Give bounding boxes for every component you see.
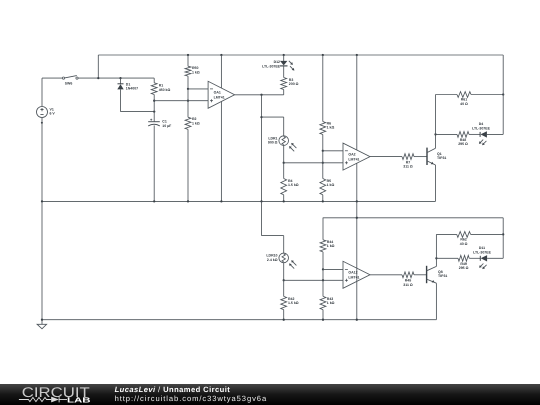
wire D11 to right rail xyxy=(487,257,503,259)
wire R1 node to OA1 plus input xyxy=(154,100,208,102)
wire riser to top rail xyxy=(97,55,99,78)
wire R50 bottom lead xyxy=(187,76,189,89)
wire to OA12 minus input xyxy=(323,268,343,270)
wire LDR10 feed xyxy=(261,201,263,235)
resistor R7 zigzag xyxy=(402,154,414,160)
wire R4 bottom lead xyxy=(283,195,285,202)
label R6 1k xyxy=(327,122,335,130)
resistor R3 zigzag xyxy=(281,78,287,90)
svg-text:40 Ω: 40 Ω xyxy=(460,242,468,246)
wire R6 top lead xyxy=(322,55,324,122)
wire R42 top lead xyxy=(283,280,285,296)
wire OA2 negative supply / OA12 positive supply xyxy=(356,163,358,268)
wire R44 top lead xyxy=(322,218,324,240)
wire to LDR1 top xyxy=(262,116,284,118)
wire R50 top lead xyxy=(187,55,189,66)
svg-text:1 kΩ: 1 kΩ xyxy=(192,121,200,125)
wire R43 bottom lead xyxy=(322,310,324,320)
LED D11 light arrow 1 xyxy=(479,264,483,268)
svg-text:LTL-307EE: LTL-307EE xyxy=(473,250,491,254)
node railA-V1 xyxy=(41,200,43,202)
wire LDR10 bottom lead xyxy=(283,263,285,281)
LDR1 light arrow 1 xyxy=(289,146,294,151)
wire OA1 positive supply xyxy=(220,55,222,88)
resistor R44 zigzag xyxy=(320,240,326,252)
wire OA1 output xyxy=(235,94,284,96)
resistor R6 zigzag xyxy=(320,122,326,135)
label Q8 TIP31 xyxy=(438,270,447,278)
resistor R43 zigzag xyxy=(320,296,326,309)
transistor Q1 TIP31 xyxy=(427,148,436,165)
label D4 LTL-307EE xyxy=(472,122,490,130)
wire Q1 collector up xyxy=(435,134,437,148)
label R61 40 xyxy=(460,98,468,106)
svg-text:LMT41: LMT41 xyxy=(348,158,359,162)
node R1 bottom junction xyxy=(153,100,155,102)
wire R5 bottom lead xyxy=(322,195,324,202)
label OA12 LMT41 xyxy=(348,271,359,280)
svg-text:TIP31: TIP31 xyxy=(438,274,447,278)
resistor R62 zigzag xyxy=(457,232,471,238)
node R62 right on rail xyxy=(502,233,504,235)
svg-text:2.4 kΩ: 2.4 kΩ xyxy=(267,258,278,262)
wire OA1 negative supply xyxy=(220,102,222,202)
ground symbol xyxy=(37,320,47,329)
wire R48 left lead xyxy=(436,133,458,135)
LED D4 light arrow 1 xyxy=(479,140,483,144)
resistor R5 zigzag xyxy=(320,179,326,195)
label OA1 LMT41 xyxy=(214,91,225,100)
node OA1 output junction xyxy=(260,94,262,96)
label LDR1 900 xyxy=(268,136,278,144)
wire R45 to Q8 base xyxy=(414,274,427,276)
wire R62 left riser xyxy=(435,234,437,258)
node SW rail junction xyxy=(97,77,99,79)
svg-text:OA1: OA1 xyxy=(214,91,221,95)
wire to OA2 plus input xyxy=(284,162,343,164)
wire R2 top lead xyxy=(187,101,189,118)
label R7 311 xyxy=(403,161,413,169)
svg-text:1N4007: 1N4007 xyxy=(126,87,138,91)
label R2 1k xyxy=(192,117,200,125)
label R62 40 xyxy=(460,238,468,246)
label R4 1.5k xyxy=(288,179,299,187)
node R61 right on rail xyxy=(502,93,504,95)
wire V1 to SW6 xyxy=(42,77,62,79)
node Q8 collector junction xyxy=(435,257,437,259)
svg-text:1 kΩ: 1 kΩ xyxy=(327,126,335,130)
wire R42 bottom lead xyxy=(283,310,285,320)
node railA-C1 xyxy=(153,200,155,202)
svg-text:OA2: OA2 xyxy=(348,152,355,156)
CircuitLab logo wordmark xyxy=(22,384,91,405)
node D12 top on rail xyxy=(283,54,285,56)
wire to OA1 minus input xyxy=(188,88,208,90)
wire R1 top lead xyxy=(153,78,155,83)
wire R62 left lead xyxy=(436,233,456,235)
node R43 top junction xyxy=(322,279,324,281)
wire C1 bottom to rail A xyxy=(153,125,155,201)
LED D4 light arrow 2 xyxy=(482,141,486,145)
label R5 1k xyxy=(327,179,335,187)
wire OA2 positive supply xyxy=(356,55,358,150)
node railB-OA2supply xyxy=(356,217,358,219)
LED D11 light arrow 2 xyxy=(482,265,486,269)
capacitor C1 xyxy=(148,119,160,126)
wire R61 left lead xyxy=(436,94,458,96)
label R50 1k xyxy=(192,66,200,74)
wire V1 top lead up xyxy=(41,78,43,106)
svg-text:LTL-307EE: LTL-307EE xyxy=(262,64,280,68)
label D1 1N4007 xyxy=(126,83,138,91)
label R43 1k xyxy=(327,297,335,305)
wire D4 to right rail xyxy=(487,133,503,135)
node bottom-V1 xyxy=(41,319,43,321)
wire R5 top lead xyxy=(322,163,324,179)
LED D11 xyxy=(480,255,487,261)
wire R3 bottom lead xyxy=(283,90,285,95)
resistor R49 zigzag xyxy=(458,255,469,261)
photoresistor LDR10 xyxy=(279,253,289,263)
node railA-out1 xyxy=(260,200,262,202)
wire rail A (mid ground rail) xyxy=(42,200,436,202)
transistor Q8 TIP31 xyxy=(427,266,437,283)
label R42 1.5k xyxy=(288,297,299,305)
LED D4 xyxy=(480,131,487,137)
label R49 295 xyxy=(459,262,469,270)
svg-text:295 Ω: 295 Ω xyxy=(458,142,468,146)
svg-text:1.5 kΩ: 1.5 kΩ xyxy=(288,183,299,187)
resistor R1 zigzag xyxy=(151,83,157,95)
wire R6-R5 column xyxy=(322,151,324,163)
node R2 top junction xyxy=(187,100,189,102)
node LDR1 feed junction xyxy=(260,116,262,118)
op-amp OA12 xyxy=(343,261,370,288)
node bottom-OA12 xyxy=(356,319,358,321)
resistor R2 zigzag xyxy=(185,117,191,129)
resistor R48 zigzag xyxy=(457,132,469,138)
wire to OA12 plus input xyxy=(284,279,343,281)
CircuitLab logo resistor-diode glyph xyxy=(19,397,67,403)
wire Q8 emitter down xyxy=(435,283,437,320)
node railA-R2 xyxy=(187,200,189,202)
switch SW6 xyxy=(62,76,78,80)
node V1 negative terminal xyxy=(41,122,43,124)
wire LDR1 bottom lead xyxy=(283,145,285,162)
resistor R61 zigzag xyxy=(457,92,471,98)
label LDR10 2.4k xyxy=(266,254,277,262)
label R45 311 xyxy=(403,279,413,287)
wire V1 bottom to ground rail xyxy=(41,118,43,320)
svg-text:6 V: 6 V xyxy=(50,112,56,116)
wire D1 to C1 node xyxy=(121,111,155,113)
svg-text:OA12: OA12 xyxy=(348,271,357,275)
op-amp OA1 xyxy=(208,81,235,108)
node OA2 power top xyxy=(356,54,358,56)
LDR10 light arrow 2 xyxy=(291,260,296,265)
photoresistor LDR1 xyxy=(279,136,289,146)
wire R61 right lead xyxy=(471,94,503,96)
wire R4 top lead xyxy=(283,163,285,179)
wire R1 bottom / C1 top lead xyxy=(153,95,155,122)
svg-text:SW6: SW6 xyxy=(65,81,73,85)
label Q1 TIP31 xyxy=(437,152,446,160)
node D1-C1 junction xyxy=(153,110,155,112)
svg-text:LTL-307EE: LTL-307EE xyxy=(472,126,490,130)
wire R44 bottom lead xyxy=(322,252,324,270)
svg-text:TIP31: TIP31 xyxy=(437,156,446,160)
svg-text:1.5 kΩ: 1.5 kΩ xyxy=(288,301,299,305)
svg-text:LAB: LAB xyxy=(67,396,91,405)
wire top supply rail xyxy=(98,54,503,56)
svg-text:LMT41: LMT41 xyxy=(214,96,225,100)
node bottom-R42 xyxy=(283,319,285,321)
svg-text:311 Ω: 311 Ω xyxy=(403,283,413,287)
svg-text:1 kΩ: 1 kΩ xyxy=(327,183,335,187)
label C1 10uF xyxy=(162,120,172,128)
wire R44-R43 column xyxy=(322,269,324,280)
wire to OA2 minus input xyxy=(323,150,343,152)
resistor R42 zigzag xyxy=(281,296,287,309)
wire R2 bottom lead xyxy=(187,129,189,201)
wire OA12 negative supply (passes through symbol) xyxy=(356,268,358,320)
resistor R4 zigzag xyxy=(281,179,287,195)
wire Q1 emitter down xyxy=(435,165,437,201)
wire SW6 to R1 top xyxy=(78,77,154,79)
wire R7 to Q1 base xyxy=(414,156,427,158)
wire R49 to D11 xyxy=(469,257,480,259)
svg-text:1 kΩ: 1 kΩ xyxy=(192,70,200,74)
svg-text:10 µF: 10 µF xyxy=(162,124,172,128)
node R50 top on rail xyxy=(187,54,189,56)
node D1 top junction xyxy=(119,77,121,79)
label D12 LTL-307EE xyxy=(262,60,280,68)
wire R43 top lead xyxy=(322,280,324,296)
wire D12 top lead xyxy=(283,55,285,61)
node railA-R4 xyxy=(283,200,285,202)
wire D1 bottom lead xyxy=(120,89,122,111)
svg-text:900 Ω: 900 Ω xyxy=(268,141,278,145)
wire R6 bottom lead xyxy=(322,135,324,151)
label OA2 LMT41 xyxy=(348,152,359,161)
wire D1 top lead xyxy=(120,78,122,84)
node R6/minus junction xyxy=(322,150,324,152)
wire R48 to D4 xyxy=(469,133,480,135)
label R1 450k xyxy=(159,84,171,92)
wire OA2 output to R7 xyxy=(370,156,402,158)
LED D12 light arrow 1 xyxy=(289,61,293,65)
wire OA1 output riser xyxy=(261,95,263,202)
label R3 200 xyxy=(289,78,299,86)
node railA-R5 xyxy=(322,200,324,202)
svg-text:1 kΩ: 1 kΩ xyxy=(327,244,335,248)
wire right rail bottom section xyxy=(502,218,504,258)
node OA1 power top xyxy=(220,54,222,56)
node Q1 collector junction xyxy=(434,133,436,135)
LDR10 light arrow 1 xyxy=(289,263,294,268)
node LDR1/R4 junction xyxy=(283,162,285,164)
label R44 1k xyxy=(327,240,335,248)
node R5 top junction xyxy=(322,162,324,164)
wire LDR1 top lead xyxy=(283,117,285,136)
wire R61 left riser xyxy=(435,95,437,135)
LED D12 light arrow 2 xyxy=(290,66,294,70)
svg-text:295 Ω: 295 Ω xyxy=(459,266,469,270)
node railA-OA1 xyxy=(220,200,222,202)
resistor R45 zigzag xyxy=(402,272,414,278)
label D11 LTL-307EE xyxy=(473,246,491,254)
wire D12 to R3 xyxy=(283,66,285,78)
resistor R50 zigzag xyxy=(185,66,191,76)
svg-text:LMT41: LMT41 xyxy=(348,276,359,280)
footer bar xyxy=(0,384,540,405)
node railA-OA2 xyxy=(356,200,358,202)
wire R62 right lead xyxy=(471,233,504,235)
svg-text:200 Ω: 200 Ω xyxy=(289,82,299,86)
label V1 6V xyxy=(50,108,56,116)
node R6 top on rail xyxy=(322,54,324,56)
wire OA12 output to R45 xyxy=(370,274,402,276)
label R48 295 xyxy=(458,138,468,146)
voltage source V1 xyxy=(37,107,48,118)
node bottom-R43 xyxy=(322,319,324,321)
wire right rail top section xyxy=(502,55,504,134)
svg-text:311 Ω: 311 Ω xyxy=(403,165,413,169)
node LDR10/R42 junction xyxy=(283,279,285,281)
node R44/minus junction xyxy=(322,268,324,270)
wire Q8 collector up xyxy=(435,258,437,266)
svg-text:450 kΩ: 450 kΩ xyxy=(159,88,171,92)
node R50/minus junction xyxy=(187,88,189,90)
wire rail B (lower supply) xyxy=(323,217,503,219)
wire R50-R2 column xyxy=(187,89,189,101)
LDR1 light arrow 2 xyxy=(291,143,296,148)
svg-text:1 kΩ: 1 kΩ xyxy=(327,301,335,305)
wire R49 left lead xyxy=(436,257,458,259)
op-amp OA2 xyxy=(343,143,370,170)
wire bottom ground rail xyxy=(42,319,436,321)
svg-text:40 Ω: 40 Ω xyxy=(460,102,468,106)
